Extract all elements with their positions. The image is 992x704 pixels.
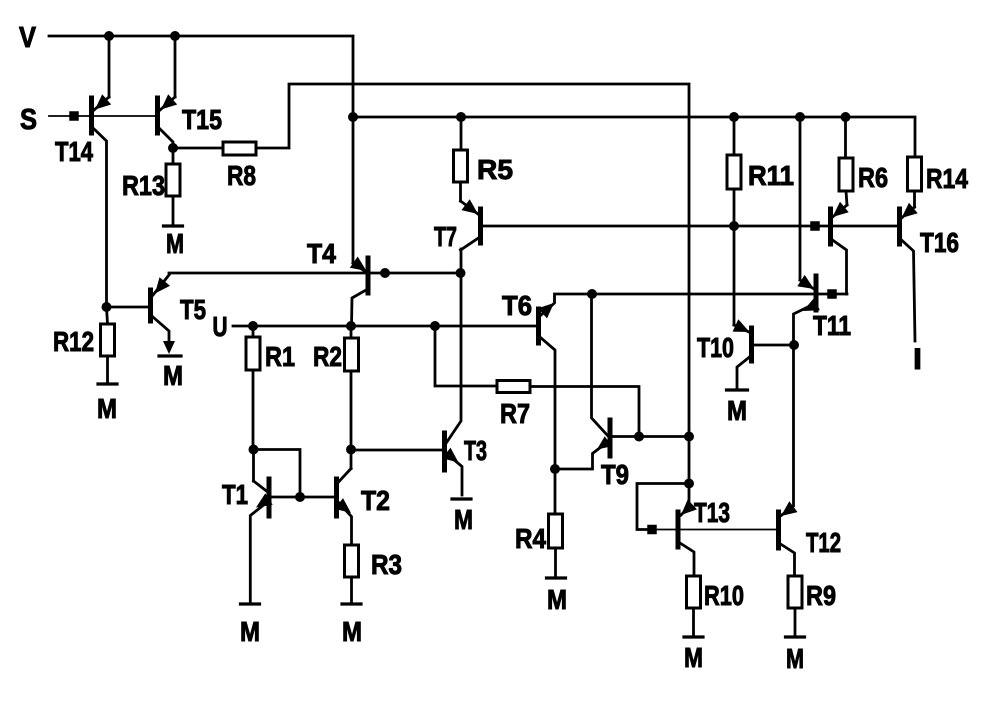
svg-text:T3: T3: [464, 435, 487, 466]
svg-text:R14: R14: [926, 163, 968, 194]
svg-text:R3: R3: [371, 549, 402, 580]
svg-text:T11: T11: [813, 310, 851, 341]
svg-text:T16: T16: [920, 227, 959, 258]
svg-text:V: V: [19, 22, 37, 54]
svg-text:R9: R9: [806, 580, 836, 611]
svg-text:M: M: [240, 616, 260, 647]
svg-text:T2: T2: [361, 485, 390, 516]
svg-text:I: I: [913, 343, 922, 376]
svg-text:R4: R4: [515, 523, 546, 554]
svg-text:T12: T12: [806, 527, 841, 558]
svg-text:R2: R2: [313, 341, 342, 372]
svg-text:U: U: [213, 311, 228, 342]
svg-text:M: M: [166, 228, 184, 259]
svg-text:T9: T9: [601, 459, 629, 490]
svg-text:R8: R8: [227, 160, 256, 191]
svg-text:R6: R6: [858, 162, 888, 193]
svg-text:R7: R7: [500, 398, 530, 429]
svg-text:M: M: [342, 616, 362, 647]
svg-text:T1: T1: [222, 479, 248, 510]
svg-text:T5: T5: [180, 294, 206, 325]
svg-text:T10: T10: [697, 332, 734, 363]
svg-text:R1: R1: [265, 341, 295, 372]
svg-text:M: M: [786, 643, 804, 674]
svg-text:M: M: [454, 504, 473, 535]
svg-text:T14: T14: [55, 136, 93, 167]
svg-text:M: M: [163, 360, 183, 391]
svg-text:M: M: [547, 584, 567, 615]
svg-text:R11: R11: [748, 160, 794, 191]
svg-text:M: M: [727, 395, 747, 426]
svg-text:R13: R13: [122, 170, 165, 201]
svg-text:R12: R12: [53, 326, 94, 357]
svg-text:T13: T13: [694, 497, 730, 528]
svg-text:R10: R10: [704, 580, 744, 611]
svg-text:T4: T4: [307, 238, 336, 269]
svg-text:T15: T15: [182, 104, 222, 135]
svg-text:M: M: [97, 393, 117, 424]
svg-text:M: M: [684, 642, 703, 673]
svg-text:R5: R5: [477, 154, 513, 185]
svg-text:T7: T7: [434, 221, 457, 252]
svg-text:T6: T6: [502, 290, 532, 321]
svg-text:S: S: [20, 104, 37, 136]
